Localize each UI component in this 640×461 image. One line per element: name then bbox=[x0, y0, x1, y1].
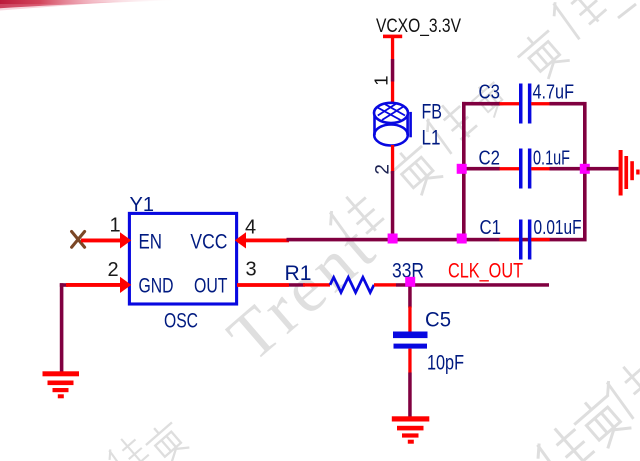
svg-text:OSC: OSC bbox=[164, 310, 198, 333]
top-left red swoosh bbox=[0, 0, 182, 8]
no-connect X on pin 1 bbox=[72, 232, 85, 248]
C2 right pin bbox=[531, 167, 550, 170]
power bar symbol bbox=[383, 35, 402, 39]
wire bead to pin2 bbox=[391, 145, 394, 171]
capacitor C3 bbox=[519, 84, 523, 124]
junction C2 right bbox=[580, 164, 590, 174]
pin 4 arrowhead bbox=[235, 232, 246, 248]
pin 2 wire (GND) bbox=[66, 283, 122, 287]
pin 2 elbow wire from ground bbox=[60, 283, 68, 287]
svg-text:2: 2 bbox=[372, 164, 393, 175]
C3 row wire right bbox=[550, 102, 584, 106]
svg-text:R1: R1 bbox=[285, 261, 312, 285]
pin 1 wire (EN) bbox=[81, 239, 123, 243]
svg-text:1: 1 bbox=[110, 215, 121, 237]
svg-text:VCXO_3.3V: VCXO_3.3V bbox=[376, 16, 461, 37]
ground wire left (vertical) bbox=[60, 283, 64, 372]
svg-text:C5: C5 bbox=[425, 308, 451, 332]
C2 left pin bbox=[500, 167, 520, 170]
wire OUT to R1 bbox=[289, 283, 305, 287]
svg-text:C1: C1 bbox=[480, 216, 502, 239]
CLK_OUT net wire bbox=[396, 283, 549, 287]
oscillator U Y1 box bbox=[129, 213, 236, 304]
wire C5 to ground bbox=[408, 373, 412, 417]
C2 row wire right bbox=[550, 167, 587, 171]
VCC net main wire bbox=[287, 238, 584, 242]
R1 right pin bbox=[374, 283, 396, 286]
svg-text:FB: FB bbox=[422, 99, 443, 123]
svg-text:2: 2 bbox=[108, 259, 119, 281]
svg-text:10pF: 10pF bbox=[427, 352, 464, 375]
ground symbol under C5 bbox=[392, 416, 430, 443]
svg-text:C2: C2 bbox=[479, 147, 501, 170]
junction R1/C5 bbox=[405, 277, 415, 287]
svg-text:GND: GND bbox=[139, 275, 174, 298]
pin 4 wire (VCC) bbox=[237, 239, 289, 243]
svg-text:0.1uF: 0.1uF bbox=[533, 147, 570, 170]
FB pin 1 bbox=[391, 59, 395, 82]
wire C2 to right ground bbox=[587, 167, 619, 171]
svg-text:C3: C3 bbox=[479, 81, 501, 104]
capacitor C5 bbox=[393, 332, 428, 339]
svg-text:3: 3 bbox=[246, 259, 257, 281]
C5 bottom pin bbox=[408, 349, 411, 373]
capacitor C1 bbox=[519, 220, 523, 260]
C1 left pin bbox=[500, 238, 520, 241]
svg-text:VCC: VCC bbox=[190, 230, 227, 253]
pin 2 arrowhead bbox=[120, 277, 131, 293]
ferrite bead L1 body bbox=[374, 112, 410, 146]
wire pin2 down to VCC net bbox=[391, 194, 395, 242]
svg-text:CLK_OUT: CLK_OUT bbox=[448, 259, 523, 282]
svg-text:1: 1 bbox=[371, 76, 392, 86]
FB pin 2 bbox=[391, 171, 395, 194]
R1 left pin bbox=[303, 283, 330, 286]
wire power to FB pin1 bbox=[391, 38, 394, 59]
C1 right pin bbox=[531, 238, 550, 241]
capacitor C2 bbox=[519, 149, 523, 189]
pin 3 wire (OUT) bbox=[237, 283, 289, 287]
junction left vertical/VCC net bbox=[457, 234, 467, 244]
pin 1 arrowhead bbox=[120, 232, 131, 248]
wire pin1 to bead bbox=[391, 82, 394, 105]
svg-text:4: 4 bbox=[245, 217, 256, 239]
watermark line B bbox=[530, 357, 640, 461]
svg-text:4.7uF: 4.7uF bbox=[533, 81, 575, 104]
wire junction down to C5 bbox=[408, 287, 412, 308]
capacitor bank left vertical wire bbox=[462, 102, 466, 242]
svg-text:Y1: Y1 bbox=[130, 194, 155, 216]
svg-text:EN: EN bbox=[139, 230, 163, 253]
junction C2 left bbox=[457, 164, 467, 174]
C2 row wire left bbox=[462, 167, 500, 171]
ground symbol right (rotated) bbox=[619, 150, 640, 196]
C3 right pin bbox=[531, 102, 550, 105]
capacitor bank right vertical wire bbox=[583, 102, 587, 242]
C3 left pin bbox=[500, 102, 520, 105]
junction FB/VCC net bbox=[388, 234, 398, 244]
resistor R1 zigzag bbox=[330, 277, 374, 292]
svg-text:L1: L1 bbox=[422, 126, 441, 150]
ground symbol left bbox=[43, 371, 80, 398]
svg-text:0.01uF: 0.01uF bbox=[534, 216, 582, 239]
svg-text:OUT: OUT bbox=[194, 275, 228, 298]
C3 row wire left bbox=[462, 102, 500, 106]
